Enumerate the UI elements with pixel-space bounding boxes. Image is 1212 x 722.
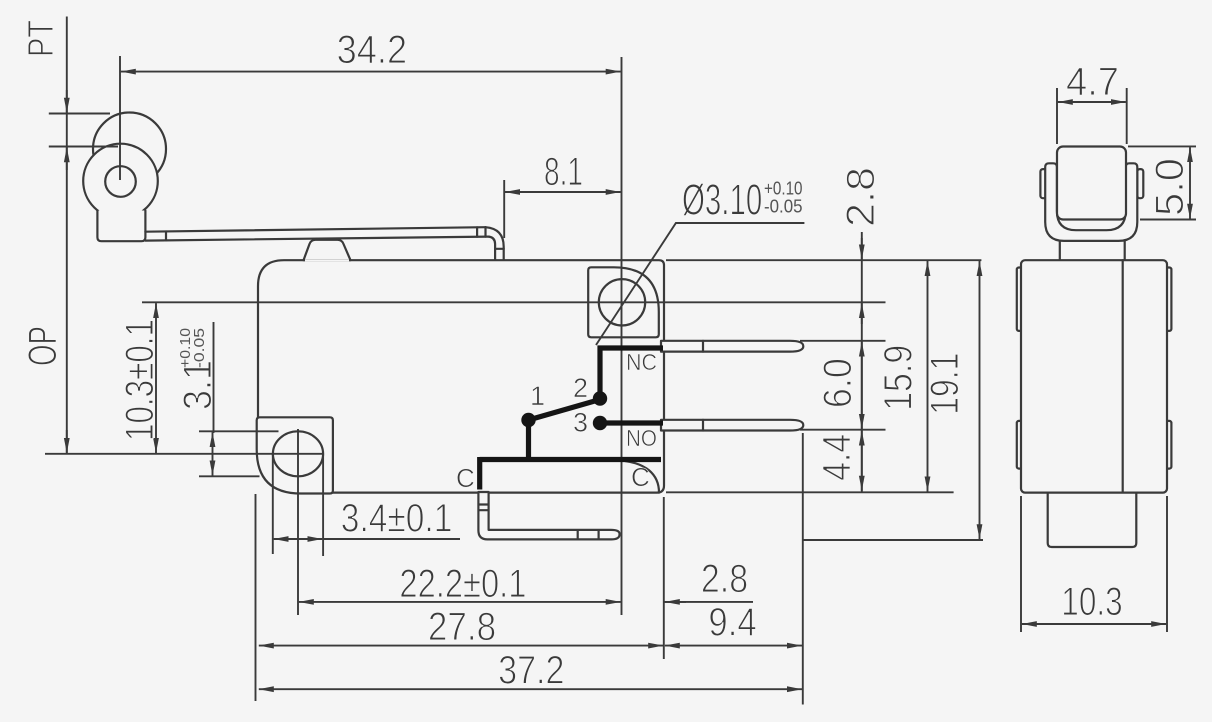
- svg-text:-0.05: -0.05: [191, 328, 208, 368]
- svg-text:Ø3.10: Ø3.10: [682, 175, 762, 224]
- svg-text:9.4: 9.4: [708, 601, 756, 645]
- svg-text:5.0: 5.0: [1148, 158, 1192, 216]
- svg-text:4.4: 4.4: [815, 434, 859, 481]
- svg-text:34.2: 34.2: [337, 28, 408, 72]
- svg-text:NO: NO: [626, 425, 657, 451]
- svg-text:OP: OP: [21, 326, 65, 366]
- svg-text:27.8: 27.8: [428, 605, 496, 649]
- svg-text:-0.05: -0.05: [764, 197, 803, 217]
- svg-text:6.0: 6.0: [816, 358, 860, 408]
- svg-text:PT: PT: [20, 20, 61, 57]
- svg-text:2: 2: [573, 373, 588, 403]
- svg-text:8.1: 8.1: [544, 150, 583, 194]
- svg-text:2.8: 2.8: [839, 167, 883, 227]
- svg-text:37.2: 37.2: [498, 649, 564, 693]
- svg-text:NC: NC: [626, 349, 657, 375]
- svg-text:15.9: 15.9: [877, 345, 921, 411]
- svg-text:10.3: 10.3: [1061, 580, 1122, 624]
- svg-text:C: C: [631, 462, 650, 492]
- svg-text:3: 3: [573, 408, 588, 438]
- svg-text:19.1: 19.1: [923, 353, 967, 415]
- svg-text:3.4±0.1: 3.4±0.1: [341, 497, 453, 541]
- svg-text:2.8: 2.8: [701, 557, 748, 601]
- svg-text:4.7: 4.7: [1066, 60, 1119, 104]
- svg-text:1: 1: [530, 381, 545, 411]
- svg-text:10.3±0.1: 10.3±0.1: [118, 319, 162, 441]
- svg-text:C: C: [456, 463, 475, 493]
- svg-text:22.2±0.1: 22.2±0.1: [399, 562, 526, 606]
- svg-text:+0.10: +0.10: [764, 179, 803, 199]
